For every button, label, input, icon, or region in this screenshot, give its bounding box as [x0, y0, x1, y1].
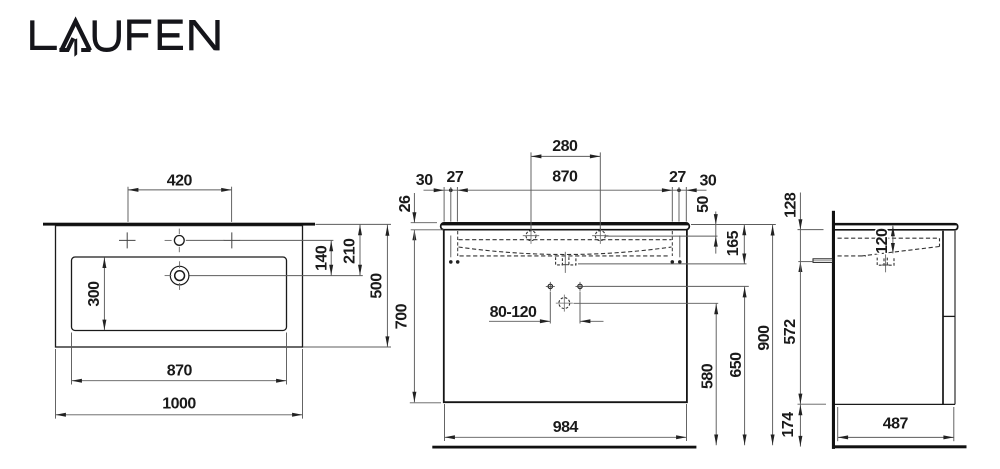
- dimension 80-120 (siphon hole spacing): [489, 292, 604, 324]
- svg-text:30: 30: [416, 172, 433, 189]
- side view: wall line (thick): [832, 211, 835, 449]
- dimension 500 (washbasin depth): [303, 224, 391, 347]
- front view: hidden tap hole left (280 pair): [523, 228, 539, 244]
- LAUFEN logo: [32, 20, 219, 57]
- left view: left alternative tap hole cross: [119, 232, 136, 248]
- front view: leader drain outlet to right dims: [574, 302, 719, 304]
- side view: cabinet bottom: [835, 403, 955, 405]
- side view: water supply pipe stub: [813, 259, 833, 263]
- side view: floor line (thick): [833, 445, 967, 448]
- svg-text:870: 870: [552, 169, 578, 186]
- svg-text:487: 487: [883, 416, 909, 433]
- left view: leader from drain to right dims: [190, 275, 363, 277]
- dimension 140 (tap hole to drain): [314, 240, 334, 275]
- front view: slab top extension line right: [691, 224, 776, 226]
- svg-text:27: 27: [669, 169, 686, 186]
- left view: right alternative tap hole cross: [224, 232, 241, 248]
- logo letter E: [160, 22, 183, 48]
- dimension 50 (top to tap hole axis): [695, 196, 718, 254]
- front view: leader basin low point to right dims: [578, 263, 747, 265]
- svg-text:140: 140: [314, 245, 331, 271]
- logo letter A outline: [61, 21, 90, 50]
- front view: right siphon mounting hole: [576, 282, 585, 291]
- svg-text:984: 984: [553, 419, 579, 436]
- dimension 174 (cabinet bottom to floor): [780, 404, 803, 447]
- logo letter A left foot and inner diagonal: [59, 38, 73, 50]
- dimension 700 (cabinet height): [394, 230, 442, 403]
- side view: washbasin slab outline: [835, 224, 958, 230]
- dimension 420 (tap hole spacing): [128, 173, 232, 222]
- front view: hidden basin bottom curve: [459, 247, 672, 255]
- dimension 165 (top to basin low point): [725, 225, 746, 264]
- svg-text:120: 120: [874, 228, 891, 254]
- logo letter L: [32, 20, 57, 48]
- front view: left tap hole axis lines with drill dots: [449, 231, 460, 264]
- left view: washbasin outer rim 1000x500: [56, 226, 303, 347]
- side view: leader pipe to left dims: [798, 261, 813, 263]
- front view: washbasin slab top thickening: [442, 223, 689, 225]
- svg-text:500: 500: [369, 273, 386, 299]
- logo letter A right foot: [81, 48, 90, 52]
- left view: center tap hole: [165, 229, 185, 253]
- dimension 572 (pipe to cabinet bottom): [782, 262, 826, 405]
- svg-text:580: 580: [700, 363, 717, 389]
- logo letter A center blade: [74, 38, 77, 56]
- dimension 984 (cabinet width): [445, 404, 687, 441]
- dimension row 30 27 870 27 30 (top): [416, 169, 717, 222]
- front view: hidden basin rim line: [459, 239, 672, 241]
- left view: top edge extension line to right dims: [316, 223, 392, 225]
- left view: drain hole: [165, 261, 189, 290]
- side view: washbasin slab top thickening: [835, 223, 957, 225]
- front view: cabinet body: [444, 230, 687, 402]
- front view: hidden drain outlet position: [556, 295, 573, 312]
- svg-text:1000: 1000: [162, 396, 196, 413]
- svg-text:50: 50: [695, 196, 712, 213]
- side view: hidden basin sump line: [838, 255, 867, 257]
- front view: washbasin slab outline: [441, 223, 690, 230]
- svg-text:174: 174: [780, 412, 797, 438]
- logo letter F: [129, 22, 151, 51]
- svg-text:26: 26: [397, 195, 414, 212]
- dimension 300 (basin depth inner): [86, 258, 106, 330]
- svg-text:280: 280: [552, 138, 578, 155]
- svg-text:30: 30: [700, 172, 717, 189]
- side view: drawer divider joint: [943, 315, 955, 317]
- dimension 580 (floor to drain outlet): [700, 303, 719, 445]
- side view: cabinet carcass front edge: [942, 231, 944, 405]
- svg-text:210: 210: [341, 238, 358, 264]
- dimension 487 (cabinet depth): [838, 407, 954, 441]
- left view: wall line behind washbasin (thick): [43, 223, 315, 226]
- svg-text:80-120: 80-120: [490, 304, 537, 321]
- dimension 870 (inner basin width): [72, 333, 287, 385]
- front view: hidden basin sump line: [460, 255, 670, 257]
- svg-text:870: 870: [167, 363, 193, 380]
- logo letter U: [95, 20, 119, 50]
- svg-text:165: 165: [725, 230, 742, 256]
- side view: hidden basin bottom slope: [862, 247, 940, 256]
- svg-text:300: 300: [86, 281, 103, 307]
- side view: hidden basin rear edge: [939, 238, 941, 246]
- front view: hidden drain cups: [556, 252, 576, 273]
- svg-text:650: 650: [728, 352, 745, 378]
- front view: left siphon mounting hole: [546, 282, 555, 291]
- dimension 280 (tap hole pair spacing): [531, 138, 600, 232]
- logo letter N: [189, 20, 219, 50]
- svg-text:420: 420: [167, 173, 193, 190]
- front view: leader tap holes to right dims: [606, 235, 718, 237]
- side view: hidden drain cups: [877, 252, 894, 272]
- side view: drawer front face: [954, 231, 956, 405]
- front view: leader mounting holes to right dims: [585, 285, 749, 287]
- front view: right tap hole axis lines with drill dots: [671, 231, 682, 264]
- dimension 900 (floor to washbasin top): [756, 225, 775, 446]
- front view: floor line (thick): [432, 446, 696, 449]
- svg-text:572: 572: [782, 319, 799, 345]
- svg-text:128: 128: [782, 192, 799, 218]
- dimension 120 (basin inner depth): [874, 226, 895, 254]
- dimension 650 (floor to mounting holes): [728, 286, 747, 445]
- dimension 26 (slab thickness): [397, 193, 444, 240]
- front view: hidden tap hole right (280 pair): [592, 228, 608, 244]
- dimension 1000 (washbasin width): [56, 349, 303, 419]
- dimension 210 (top edge to drain): [341, 224, 362, 275]
- svg-text:700: 700: [394, 303, 411, 329]
- svg-text:900: 900: [756, 325, 773, 351]
- svg-text:27: 27: [447, 169, 464, 186]
- side view: hidden basin rim line: [838, 237, 940, 239]
- dimension 128 (slab bottom to pipe): [782, 192, 823, 272]
- left view: leader from tap hole to right dims: [186, 239, 334, 241]
- left view: basin inner rim 870x300: [72, 257, 287, 331]
